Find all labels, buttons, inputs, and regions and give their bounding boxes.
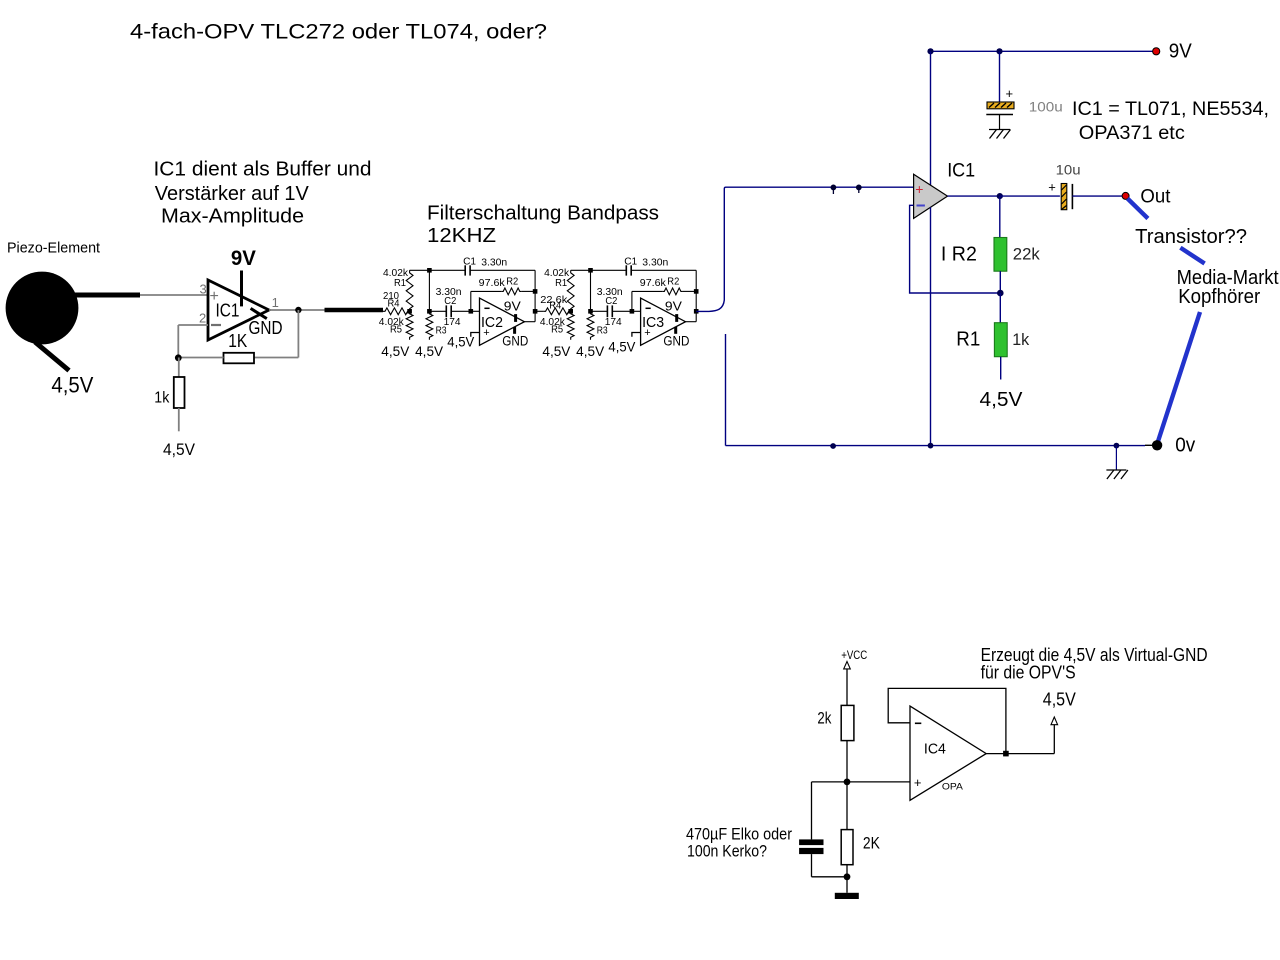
node output row IC3 [694,309,699,314]
wire 9V supply pin IC1 [240,271,243,307]
svg-text:4,5V: 4,5V [51,373,93,398]
node on signal wire 2 [856,185,862,191]
wire 100u cap branch [999,51,1001,102]
capacitor 470uF plate 1 [799,839,823,845]
wire column2 IC3 [590,270,592,311]
svg-text:1k: 1k [1012,330,1029,349]
svg-text:4,5V: 4,5V [576,344,604,359]
svg-text:R1: R1 [555,277,567,289]
svg-text:+: + [915,181,923,197]
svg-text:9V: 9V [1169,41,1193,63]
resistor R1 1k (green) [994,323,1007,357]
node 0v rail a [830,443,836,449]
node A IC2 [407,309,412,314]
wire column3 up IC2 [470,291,472,311]
svg-text:9V: 9V [231,247,256,270]
wire IC1 out thick [325,308,384,312]
resistor R2 22k (green) [994,238,1007,272]
wire piezo 4,5V lead [35,342,69,371]
svg-text:I R2: I R2 [941,243,977,265]
svg-text:OPA: OPA [942,782,963,792]
op-amp IC3 triangle [641,298,686,345]
wire plus input stub IC2 [471,333,480,337]
svg-text:22k: 22k [1013,245,1040,264]
svg-text:OPA371 etc: OPA371 etc [1079,123,1185,144]
filter stage IC3 top rail / C1 row [571,269,627,271]
node column2 bottom IC3 [588,309,593,314]
headphone lead segment 1 (blue) [1128,199,1148,219]
op-amp IC2 triangle [480,298,525,345]
resistor 2k [841,705,854,740]
resistor R1 IC3 [567,270,574,311]
svg-text:für die OPV'S: für die OPV'S [981,662,1076,682]
capacitor C2 IC2 [429,310,446,312]
resistor R2 IC3 [632,290,662,292]
svg-text:Transistor??: Transistor?? [1135,226,1247,248]
filter stage IC2 top rail / C1 row [410,269,466,271]
9V pin bar IC2 [514,314,517,322]
9V pin bar IC3 [675,314,678,322]
capacitor 100u electrolytic plus plate [987,102,1014,109]
svg-text:0v: 0v [1175,434,1195,456]
svg-text:+: + [1006,86,1014,101]
svg-text:4,5V: 4,5V [1043,690,1076,710]
wire piezo to amp (thin gray) [140,294,208,296]
svg-text:9V: 9V [665,300,683,314]
resistor 1K feedback [224,353,255,364]
ground symbol 0v [1106,469,1126,471]
wire to ground bar [846,877,848,893]
svg-text:4,5V: 4,5V [163,440,196,459]
svg-text:1: 1 [272,295,279,310]
svg-text:C1: C1 [624,255,637,267]
minus marker IC1 [211,324,221,326]
svg-text:2k: 2k [817,709,831,728]
resistor R3 IC3 [587,311,594,340]
wire IC3 output to IC1 power amp [696,187,913,311]
resistor R2 IC2 [471,290,501,292]
wire R1 to 4,5V [1000,357,1002,380]
svg-text:+: + [914,775,922,790]
wire R2 to junction [999,271,1001,293]
resistor R1 IC2 [406,270,413,311]
svg-text:10u: 10u [1056,161,1081,177]
svg-text:+: + [483,327,489,339]
svg-text:R1: R1 [394,277,406,289]
svg-text:IC1: IC1 [947,160,975,181]
svg-text:4,5V: 4,5V [980,389,1024,411]
svg-text:97.6k: 97.6k [640,277,667,289]
GND pin bar IC2 [513,327,516,334]
node 9V rail cap branch [996,48,1002,54]
wire piezo to amp (thick) [74,293,140,298]
svg-text:Max-Amplitude: Max-Amplitude [161,206,304,228]
wire between stages [535,310,544,312]
wire column3 up IC3 [631,291,633,311]
svg-text:1K: 1K [228,331,247,351]
node IC1 power output [997,193,1003,199]
GND pin slash IC1 [251,308,267,318]
wire plus input stub IC3 [632,333,641,337]
wire junction to 2K [846,782,848,830]
wire V- IC1 power [930,207,932,445]
wire bottom row [812,876,848,878]
svg-text:IC1 = TL071, NE5534,: IC1 = TL071, NE5534, [1072,99,1269,120]
0v rail stub up [725,334,727,446]
svg-text:4-fach-OPV TLC272 oder TL074,: 4-fach-OPV TLC272 oder TL074, oder? [130,20,547,44]
svg-text:3: 3 [200,282,207,297]
svg-text:9V: 9V [504,300,522,314]
node IC1 output [295,307,301,313]
op-amp IC1 buffer triangle [208,280,269,340]
node minus input IC3 [630,309,635,314]
svg-text:1k: 1k [154,390,170,407]
wire IC4 output [986,753,1054,755]
svg-text:Filterschaltung Bandpass: Filterschaltung Bandpass [427,203,659,225]
svg-text:+: + [1048,180,1056,195]
node minus input IC2 [469,309,474,314]
minus marker IC4 [915,722,921,724]
svg-text:GND: GND [249,318,283,338]
svg-text:2K: 2K [863,834,881,853]
wire 10u to Out [1072,195,1122,197]
svg-text:97.6k: 97.6k [479,277,506,289]
ground symbol 100u [989,129,1010,131]
svg-text:4,5V: 4,5V [542,344,570,359]
capacitor C1 IC3 [625,265,627,275]
capacitor C2 IC3 [591,310,608,312]
capacitor C1 IC2 [464,265,466,275]
node output R2 IC2 [533,289,538,294]
svg-text:R4: R4 [549,299,561,311]
svg-text:R3: R3 [597,325,608,337]
wire junction to resistor 1k [178,358,180,378]
resistor R4 stage IC3 (22,6k) [544,308,571,315]
svg-text:R1: R1 [956,328,980,350]
capacitor 470uF plate 2 [799,848,823,854]
minus marker IC3 [646,307,651,309]
svg-text:R5: R5 [390,324,402,336]
wire feedback bottom left [178,357,223,359]
wire minus input IC2 [471,310,480,312]
svg-text:GND: GND [663,334,689,349]
svg-text:IC4: IC4 [924,742,946,758]
piezo element disc [6,272,79,345]
wire cap to bottom [811,854,813,877]
wire output to R2 [999,196,1001,237]
wire output apex IC3 [686,321,697,323]
resistor 1k bias [174,377,185,408]
capacitor 10u second plate [1071,184,1073,209]
minus marker IC1 power (blue) [917,205,925,207]
wire output column IC3 [695,270,697,321]
svg-text:4,5V: 4,5V [447,335,474,350]
svg-text:Verstärker auf 1V: Verstärker auf 1V [155,183,310,205]
ground bar IC4 [835,893,859,899]
resistor 2K lower [841,830,853,865]
svg-text:100u: 100u [1029,98,1063,114]
node on signal wire 1 [831,185,837,191]
node bottom junction [844,873,851,880]
svg-text:C1: C1 [463,255,476,267]
svg-text:12KHZ: 12KHZ [427,225,496,247]
node column2 bottom IC2 [427,309,432,314]
headphone lead segment 3 (blue) [1157,312,1200,444]
wire minus input IC3 [632,310,641,312]
wire 0v end stub [1145,444,1153,446]
wire left leg down [811,782,813,840]
wire resistor 1k to 4,5V [178,408,180,431]
svg-text:3.30n: 3.30n [481,257,507,269]
terminal 4,5V arrow [1051,717,1058,725]
capacitor 100u bottom plate [986,114,1013,116]
wire to ground symbol [1115,446,1117,470]
resistor R5 IC3 [567,311,574,340]
svg-text:R4: R4 [388,297,400,309]
node feedback output IC4 [1003,751,1009,757]
9V supply rail [931,50,1154,52]
svg-text:2: 2 [199,311,206,326]
wire output column IC2 [534,270,536,321]
wire junction to R1 [999,293,1001,323]
svg-text:R3: R3 [436,325,447,337]
wire 2K to bottom node [846,865,848,877]
wire feedback up to pin2 [177,325,179,358]
svg-text:Piezo-Element: Piezo-Element [7,240,101,257]
resistor R4 stage IC2 (210) [383,308,410,315]
svg-text:100n Kerko?: 100n Kerko? [687,842,767,861]
wire output apex IC2 [524,321,535,323]
headphone lead segment 2 (blue) [1180,248,1204,264]
resistor R5 IC2 [406,311,413,340]
wire V+ IC1 power [930,51,932,185]
svg-text:IC1 dient als Buffer und: IC1 dient als Buffer und [154,158,372,180]
svg-text:4,5V: 4,5V [608,340,635,355]
svg-text:IC1: IC1 [216,301,240,321]
wire IC1 power output [948,195,1000,197]
wire feedback IC1 power [910,205,1001,293]
wire junction to plus input [812,781,911,783]
node output row IC2 [533,309,538,314]
terminal +VCC arrow [844,662,851,669]
resistor R3 IC2 [426,311,433,340]
svg-text:R2: R2 [667,275,679,287]
svg-text:+: + [644,327,650,339]
svg-text:GND: GND [502,334,528,349]
node column2 top IC2 [427,268,432,273]
node column2 top IC3 [588,268,593,273]
minus marker IC2 [484,307,489,309]
svg-text:+VCC: +VCC [841,648,867,662]
capacitor 10u electrolytic plus plate [1061,184,1067,210]
node 0v rail ground branch [1114,443,1120,449]
wire output up to 4,5V arrow [1053,725,1055,754]
svg-text:3.30n: 3.30n [642,257,668,269]
terminal 0v (big dot) [1152,440,1162,450]
wire column2 IC2 [428,270,430,311]
node 0v rail b [928,443,934,449]
wire +VCC to 2k [846,669,848,706]
svg-text:Kopfhörer: Kopfhörer [1178,286,1260,308]
terminal 9V (red) [1153,48,1160,55]
wire IC1 output [269,309,325,311]
op-amp IC1 power triangle [914,174,948,218]
svg-text:Out: Out [1140,186,1171,207]
wire 2k to junction [846,741,848,782]
node feedback junction [175,354,182,361]
wire feedback bottom right [254,357,298,359]
svg-text:4,5V: 4,5V [381,344,409,359]
node 9V rail left [927,48,933,54]
node divider junction [844,779,851,786]
svg-text:4,5V: 4,5V [415,344,443,359]
node A IC3 [568,309,573,314]
wire output to 10u cap [1000,195,1060,197]
wire 100u to ground [999,115,1001,130]
svg-text:R2: R2 [506,275,518,287]
0v rail [726,445,1146,447]
wire to pin 2 [178,324,208,326]
wire feedback down [297,310,299,358]
GND pin bar IC3 [674,327,677,334]
terminal Out (red) [1122,192,1129,199]
node output R2 IC3 [694,289,699,294]
svg-text:R5: R5 [551,324,563,336]
wire feedback IC4 [888,688,1006,753]
op-amp IC4 triangle [910,706,986,800]
node R2 R1 junction [997,290,1004,297]
